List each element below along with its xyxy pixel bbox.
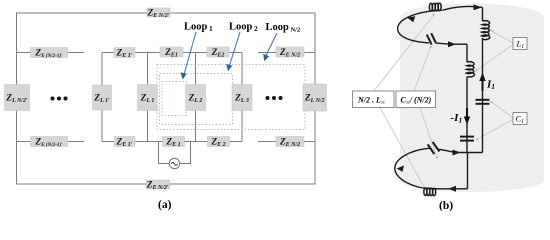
wire outer loop top: [17, 13, 316, 53]
bottom arc segment after capacitor: [439, 149, 457, 152]
arrow loop2: [226, 32, 240, 71]
wire column ZL3: [241, 53, 243, 142]
pointer line LI to coil V2: [476, 45, 513, 71]
pointer line Coo/(N/2) to bottom capacitor: [420, 108, 437, 158]
impedance block ZE (N/2-1)' row3: [31, 137, 68, 149]
pointer line N/2.Loo to top coil: [374, 15, 434, 91]
impedance block ZL N/2: [303, 84, 327, 111]
capacitor on V2 plate2: [460, 140, 474, 142]
impedance block ZE 1' row2: [114, 48, 135, 60]
label box Coo/(N/2): [396, 91, 436, 108]
svg-text:Loop N/2: Loop N/2: [266, 22, 301, 34]
top arc left segment: [398, 11, 429, 43]
svg-text:(a): (a): [158, 199, 172, 211]
impedance block ZE 2 row3: [208, 137, 230, 149]
pointer line LI to coil V1: [491, 30, 513, 43]
impedance block ZL 3: [232, 85, 252, 111]
inductor coil on top arc: [428, 10, 443, 11]
wire V3 down: [467, 153, 469, 189]
wire column ZL2: [195, 53, 197, 142]
impedance block ZL 1': [93, 85, 112, 110]
arrowhead bottom arc left: [397, 166, 405, 172]
label box N/2.Loo: [353, 91, 395, 108]
impedance block ZE 1 row3: [163, 137, 185, 149]
impedance block ZL 2: [186, 85, 206, 111]
arrowhead top arc right end: [474, 4, 482, 10]
wire V1 right vertical: [482, 8, 484, 153]
pointer line Coo/(N/2) to top capacitor: [414, 47, 431, 91]
impedance block ZL 1: [138, 85, 158, 111]
svg-text:N/2 . L∞: N/2 . L∞: [357, 96, 385, 107]
wire column ZL1': [101, 53, 103, 142]
wire row3 rail seg2: [102, 141, 242, 143]
impedance block ZE (N/2-1)' row2: [31, 48, 68, 60]
inductor coil on V2: [466, 62, 474, 77]
svg-text:Loop 2: Loop 2: [229, 22, 258, 34]
arrow loop1: [181, 32, 196, 80]
impedance block ZE2 row2: [207, 47, 229, 59]
impedance block ZE 1' row3: [114, 137, 135, 149]
impedance block ZE N/2 row3: [276, 137, 304, 149]
capacitor slanted plates top arc: [427, 33, 436, 44]
current arrow I1 up: [479, 73, 485, 92]
arrowhead top arc lower: [448, 41, 456, 47]
label box L1: [513, 38, 527, 51]
wire row3 rail seg3: [258, 141, 315, 143]
dashed loop box 1: [162, 82, 186, 116]
impedance block ZE N/2 row2: [276, 47, 304, 59]
capacitor on V1 plate1: [476, 99, 490, 101]
pointer line CI to capacitor V1: [492, 102, 514, 118]
wire H2 bottom: [437, 188, 468, 190]
wire row2 rail seg1: [17, 52, 85, 54]
arrowhead bottom arc upper end: [453, 150, 461, 156]
pointer end marks: [428, 14, 493, 196]
arrowhead top arc left: [407, 16, 415, 22]
capacitor on V2 plate1: [460, 136, 474, 138]
capacitor on V1 plate2: [476, 103, 490, 105]
pointer line N/2.Loo to bottom coil: [380, 108, 429, 196]
cylinder body: [400, 4, 544, 193]
dots right: [266, 96, 283, 100]
wire row2 rail seg3: [258, 52, 315, 54]
current arrow -I1 down: [464, 108, 470, 125]
svg-text:C∞/ (N/2): C∞/ (N/2): [401, 96, 432, 107]
wire top arc to V2: [452, 43, 467, 45]
wire outer loop bottom: [17, 142, 316, 185]
impedance block ZL N/2': [5, 85, 30, 111]
inductor coil on bottom arc: [422, 187, 437, 190]
dots left: [51, 97, 68, 101]
top arc right segment: [443, 6, 483, 10]
dashed loop box N/2: [157, 65, 305, 130]
wire V2 left vertical: [466, 44, 468, 152]
wire row3 rail seg1: [17, 141, 85, 143]
label box C1: [513, 113, 527, 126]
arrowhead H2 pointing left: [448, 186, 456, 192]
svg-text:(b): (b): [439, 200, 453, 212]
inductor coil on V1: [482, 21, 490, 40]
wire right column mid: [314, 53, 316, 142]
impedance block ZE1 row2: [160, 47, 183, 59]
svg-text:Loop 1: Loop 1: [184, 22, 213, 34]
wire column ZL1: [147, 53, 149, 142]
wire row2 rail seg2: [102, 52, 242, 54]
dashed loop box 2: [160, 74, 233, 125]
pointer line CI to capacitor V2: [477, 120, 513, 140]
wire left column mid: [16, 53, 18, 142]
wire source loop: [159, 142, 191, 164]
arrow loop N/2: [263, 33, 277, 61]
impedance block ZE N/2' (bottom wire): [146, 180, 170, 191]
capacitor slanted plates bottom arc: [428, 142, 440, 154]
impedance block ZE N/2' (top wire): [146, 8, 170, 19]
bottom arc left segment: [395, 148, 430, 188]
wire H1 junction: [457, 152, 483, 154]
top arc segment after capacitor: [436, 43, 452, 44]
source AC: [169, 158, 179, 168]
